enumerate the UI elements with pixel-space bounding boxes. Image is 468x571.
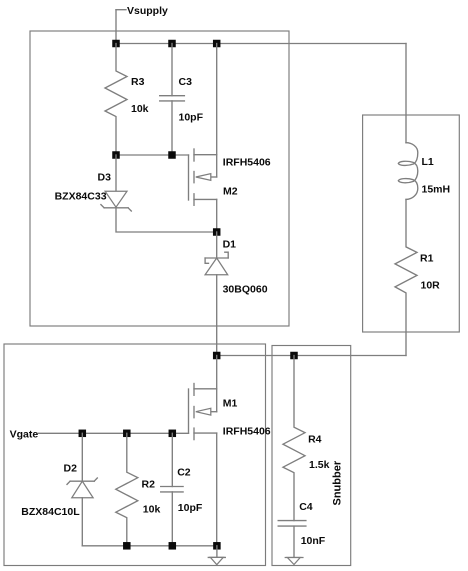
capacitor C4 <box>278 521 306 558</box>
resistor R2 <box>116 433 138 546</box>
svg-text:15mH: 15mH <box>422 184 451 196</box>
wire Vsupply down <box>115 10 117 44</box>
diode D2 zener <box>67 433 97 546</box>
svg-text:C4: C4 <box>299 501 313 513</box>
svg-text:M1: M1 <box>223 397 238 409</box>
diode D3 zener <box>101 155 217 232</box>
svg-text:BZX84C10L: BZX84C10L <box>21 506 80 518</box>
node junction bottom 3 <box>213 542 221 550</box>
transistor M1 <box>189 356 217 546</box>
node junction vgate 1 <box>79 430 87 438</box>
svg-text:10k: 10k <box>143 503 161 515</box>
resistor R1 <box>395 199 417 355</box>
svg-text:10nF: 10nF <box>301 535 326 547</box>
wire Vgate rail <box>38 432 189 434</box>
wire gate rail M2 <box>116 154 189 156</box>
capacitor C3 <box>160 44 185 156</box>
svg-text:R3: R3 <box>131 76 145 88</box>
svg-text:D3: D3 <box>98 172 112 184</box>
ground main <box>208 546 225 565</box>
inductor L1 <box>398 143 418 200</box>
svg-text:D2: D2 <box>64 463 78 475</box>
svg-text:D1: D1 <box>223 239 237 251</box>
svg-text:10R: 10R <box>421 280 441 292</box>
wire source rail bottom <box>82 545 217 547</box>
svg-text:R1: R1 <box>420 253 434 265</box>
svg-text:C3: C3 <box>179 76 193 88</box>
svg-text:IRFH5406: IRFH5406 <box>223 425 271 437</box>
box load L1/R1 <box>363 115 460 332</box>
node junction gate rail 1 <box>112 151 120 159</box>
wire top rail <box>116 43 406 45</box>
svg-text:R2: R2 <box>142 479 156 491</box>
diode D1 schottky <box>205 232 228 356</box>
node junction switch node high <box>213 228 221 236</box>
node junction vgate 2 <box>123 430 131 438</box>
node junction switch node <box>213 352 221 360</box>
svg-text:10k: 10k <box>131 103 149 115</box>
svg-text:IRFH5406: IRFH5406 <box>223 157 271 169</box>
node junction top rail 1 <box>112 40 120 48</box>
svg-text:1.5k: 1.5k <box>309 459 330 471</box>
svg-text:30BQ060: 30BQ060 <box>223 284 268 296</box>
svg-text:10pF: 10pF <box>179 112 204 124</box>
svg-text:R4: R4 <box>308 434 322 446</box>
node junction bottom 1 <box>123 542 131 550</box>
svg-text:M2: M2 <box>223 186 238 198</box>
svg-text:BZX84C33: BZX84C33 <box>55 190 107 202</box>
transistor M2 <box>189 44 217 233</box>
wire load branch from top rail <box>405 44 407 143</box>
node junction bottom 2 <box>169 542 177 550</box>
node junction snubber tap <box>290 352 298 360</box>
resistor R3 <box>105 44 127 156</box>
resistor R4 <box>283 356 305 521</box>
box low-side driver <box>4 344 266 566</box>
node junction top rail 3 <box>213 40 221 48</box>
svg-text:Vgate: Vgate <box>10 428 39 440</box>
ground snubber <box>285 558 303 565</box>
svg-text:10pF: 10pF <box>178 502 203 514</box>
svg-text:C2: C2 <box>177 467 191 479</box>
node junction vgate 3 <box>169 430 177 438</box>
node Vsupply label tick <box>116 9 126 11</box>
node junction top rail 2 <box>168 40 176 48</box>
box snubber <box>272 346 351 566</box>
svg-text:Vsupply: Vsupply <box>127 5 168 17</box>
node junction gate rail 2 <box>168 151 176 159</box>
wire switch node rail <box>217 355 406 357</box>
svg-text:Snubber: Snubber <box>332 460 344 505</box>
box high-side driver <box>30 31 289 326</box>
svg-text:L1: L1 <box>422 156 434 168</box>
capacitor C2 <box>161 433 183 546</box>
